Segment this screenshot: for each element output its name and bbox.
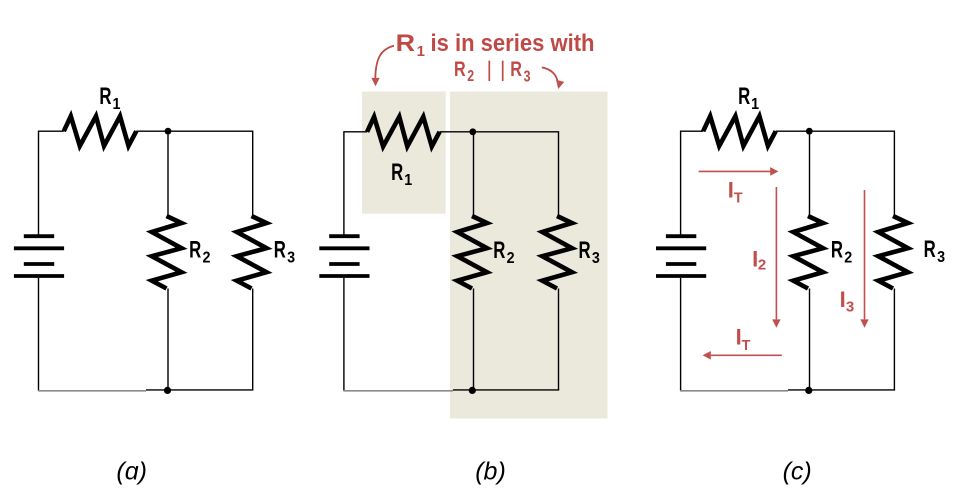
bottom wire black segment (a) [146,389,253,391]
current arrow IT top (c) [699,167,779,176]
wire right branch bottom (b) [558,289,560,390]
wire battery-bottom (b) [343,278,345,391]
caption (b) [475,457,506,485]
node dot top (a) [165,128,172,135]
battery V (b) [319,236,369,276]
svg-text:R: R [510,57,522,81]
svg-text:2: 2 [507,250,515,267]
annotation text line 1 (b) [396,30,595,60]
label R3 (a) [274,237,295,267]
label R2 (a) [189,237,210,267]
label R2 (c) [831,237,852,267]
wire top-left (a) [39,131,64,235]
svg-text:3: 3 [524,67,531,85]
node dot top (c) [806,128,813,135]
svg-text:3: 3 [592,250,600,267]
label R3 (b) [578,237,599,267]
current arrow IT bottom (c) [703,351,782,360]
label I2 (c) [752,246,766,273]
annotation arrow to R1 box (b) [371,46,394,87]
label IT bottom (c) [736,324,751,354]
label R1 (c) [738,83,759,113]
svg-text:1: 1 [751,97,759,114]
caption (a) [116,457,147,485]
bottom wire gray segment (c) [680,390,788,392]
svg-text:R: R [396,30,415,56]
wire middle branch top (a) [167,131,169,216]
resistor R1 (c) [703,116,776,146]
wire middle branch bottom (b) [473,289,475,391]
battery V (c) [656,236,706,276]
svg-text:2: 2 [202,250,210,267]
svg-text:(b): (b) [475,457,506,485]
annotation text line 2 (b) [454,57,531,85]
label R2 (b) [493,237,514,267]
svg-text:2: 2 [467,67,474,85]
svg-text:R: R [924,236,936,263]
highlight box around R1 series element (b) [362,92,446,214]
wire middle branch top (c) [809,131,811,216]
resistor R2 (a) [152,216,182,289]
svg-text:R: R [391,159,403,186]
wire top-right (c) [776,131,895,216]
svg-text:1: 1 [417,43,425,60]
node dot bottom (b) [469,387,476,394]
wire right branch bottom (a) [252,289,254,390]
svg-text:R: R [831,237,843,264]
resistor R2 (c) [793,216,823,289]
svg-text:IT: IT [736,324,751,354]
label R1 (b) [391,159,412,189]
bottom wire gray segment (a) [38,390,146,392]
label R1 (a) [99,83,120,113]
resistor R3 (b) [542,216,572,289]
label R3 (c) [924,236,945,266]
node dot bottom (a) [164,387,171,394]
svg-text:3: 3 [937,250,945,267]
svg-text:(c): (c) [783,457,812,485]
bottom wire gray segment (b) [343,390,453,392]
current arrow I2 (c) [772,187,780,328]
wire top-left (b) [344,132,367,235]
svg-text:1: 1 [404,173,412,190]
svg-text:IT: IT [728,178,743,207]
current arrow I3 (c) [860,190,868,328]
resistor R3 (a) [237,216,267,289]
svg-text:R: R [578,237,590,264]
svg-text:1: 1 [112,97,120,114]
svg-text:2: 2 [844,250,852,267]
svg-text:3: 3 [287,250,295,267]
label I3 (c) [840,287,855,315]
wire top-left (c) [681,131,704,235]
svg-text:R: R [493,237,505,264]
svg-text:R: R [274,237,286,264]
svg-text:R: R [189,237,201,264]
bottom wire black segment (c) [788,389,895,391]
highlight box around R2 parallel R3 (b) [450,92,608,419]
annotation arrow to R2 parallel R3 box (b) [542,67,565,90]
wire top-right (a) [136,131,252,216]
label IT top (c) [728,178,743,207]
svg-text:R: R [738,83,750,110]
svg-text:is in series with: is in series with [431,30,595,57]
svg-text:R: R [99,83,111,110]
node dot bottom (c) [805,387,812,394]
resistor R1 (b) [367,117,440,147]
bottom wire black segment (b) [453,389,559,391]
battery V (a) [14,236,64,276]
wire middle branch top (b) [473,132,475,216]
wire middle branch bottom (c) [809,289,811,391]
caption (c) [783,457,812,485]
node dot top (b) [469,128,476,135]
wire right branch bottom (c) [893,289,895,390]
resistor R2 (b) [457,216,487,289]
svg-text:R: R [454,57,466,81]
resistor R3 (c) [878,216,908,289]
svg-text:I3: I3 [840,287,855,315]
svg-text:I2: I2 [752,246,766,273]
wire top-right (b) [440,132,559,216]
svg-text:(ɑ): (ɑ) [116,457,147,485]
wire battery-bottom (a) [38,278,40,391]
resistor R1 (a) [64,116,137,146]
wire middle branch bottom (a) [167,289,169,391]
wire battery-bottom (c) [680,278,682,391]
